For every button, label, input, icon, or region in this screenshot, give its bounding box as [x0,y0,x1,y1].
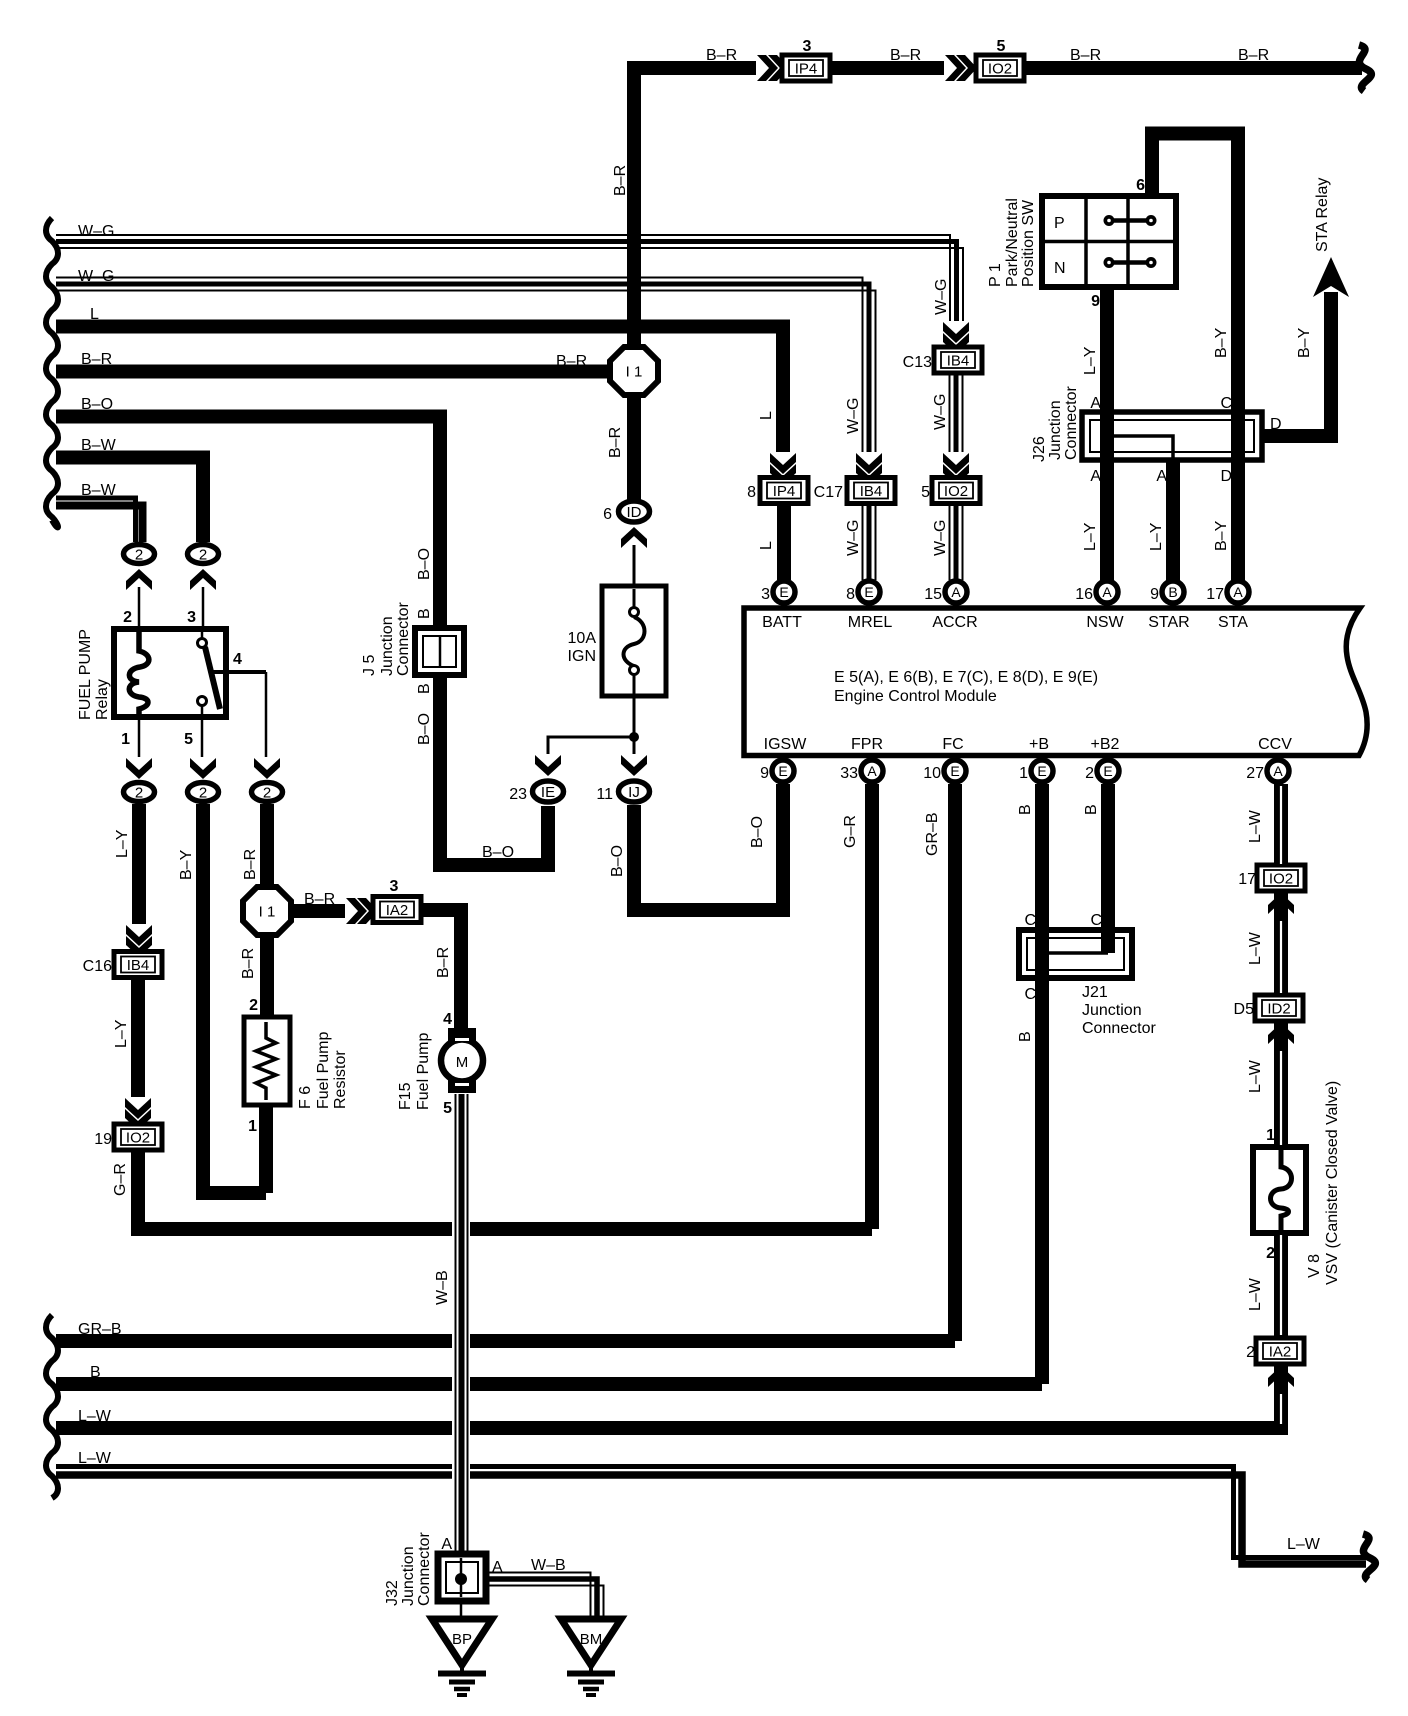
connector IB4 (C17) [814,478,895,504]
svg-text:C13: C13 [903,354,932,371]
arrow into IP4 (8) [770,452,797,485]
arrow into IB4 (C13) [943,321,970,354]
svg-text:B–R: B–R [1238,47,1269,64]
svg-text:F15: F15 [397,1082,414,1110]
svg-text:4: 4 [443,1011,452,1028]
svg-text:IA2: IA2 [1269,1344,1292,1361]
svg-text:N: N [1054,260,1066,277]
wire NSW through J26 [1082,414,1113,581]
svg-text:10: 10 [923,765,941,782]
torn edge left bottom buses [46,1315,58,1498]
connector IA2 (3) [373,878,421,923]
svg-text:B–R: B–R [706,47,737,64]
pin +B2 2 E [1085,736,1119,782]
svg-text:Park/Neutral: Park/Neutral [1004,198,1021,287]
svg-text:E: E [864,584,873,600]
svg-text:L–Y: L–Y [1082,522,1099,551]
svg-text:STA Relay: STA Relay [1314,178,1331,252]
svg-text:B: B [416,683,433,694]
arrow down into IE [535,754,562,776]
svg-text:J32: J32 [384,1580,401,1606]
svg-text:B: B [416,608,433,619]
svg-text:B–O: B–O [482,844,514,861]
svg-text:E: E [1037,763,1046,779]
svg-text:2: 2 [135,547,143,564]
wire branch to IE [548,737,634,757]
wire relay pin 4 drop [265,672,268,760]
arrow down into IJ [621,754,648,776]
svg-text:2: 2 [1085,765,1094,782]
svg-text:B–R: B–R [890,47,921,64]
svg-text:5: 5 [443,1100,452,1117]
svg-text:Junction: Junction [400,1546,417,1606]
arrow up into oval 2 pin2 [126,569,153,591]
svg-text:BM: BM [580,1631,603,1648]
svg-text:J21: J21 [1082,984,1108,1001]
svg-text:A: A [1273,763,1283,779]
relay pin 4 contact line [213,651,266,672]
svg-text:W–G: W–G [845,520,862,556]
svg-text:IO2: IO2 [126,1130,150,1147]
svg-text:5: 5 [997,38,1006,55]
fuel pump F15 motor [397,1028,483,1117]
arrow up into IA2-2 [1268,1366,1295,1388]
wire W-G IO2 to ACCR [932,503,963,580]
svg-text:L–W: L–W [1247,809,1264,843]
label B-R top rail left [706,47,737,64]
svg-text:IGSW: IGSW [764,736,808,753]
svg-text:GR–B: GR–B [78,1321,122,1338]
wire L-W CCV to IO2-17 [1247,784,1281,866]
svg-text:IO2: IO2 [944,483,968,500]
svg-text:I 1: I 1 [626,364,643,381]
pin FC 10 E [923,736,966,782]
wire B-W bus 2 [56,482,143,542]
svg-text:STA: STA [1218,614,1248,631]
junction I1 top [610,347,658,395]
svg-text:BATT: BATT [762,614,802,631]
junction connector J5 [361,602,464,694]
arrow up into ID [621,527,648,549]
wire GR-B FC to bus [924,784,955,1341]
svg-text:B–O: B–O [749,816,766,848]
label W-G above C13 [933,279,950,315]
label C top of J26 [1220,395,1232,412]
svg-text:3: 3 [390,878,399,895]
svg-text:W–G: W–G [932,520,949,556]
wire L-W bus 2 [56,1450,1366,1564]
svg-text:Connector: Connector [395,602,412,676]
svg-text:IO2: IO2 [1269,871,1293,888]
pin BATT 3 E [761,581,802,631]
svg-text:ACCR: ACCR [932,614,977,631]
relay FUEL PUMP box [77,629,226,720]
svg-text:M: M [456,1054,469,1071]
svg-text:B–O: B–O [416,548,433,580]
connector IO2 (17) [1238,865,1305,891]
svg-text:B–Y: B–Y [178,849,195,880]
svg-text:D: D [1270,416,1282,433]
svg-text:27: 27 [1246,765,1264,782]
svg-text:L: L [90,306,99,323]
torn edge left top buses [46,218,58,527]
svg-text:W–G: W–G [78,268,114,285]
svg-text:A: A [492,1559,503,1576]
svg-text:A: A [1156,468,1167,485]
svg-text:VSV (Canister Closed Valve): VSV (Canister Closed Valve) [1324,1081,1341,1285]
svg-text:A: A [951,584,961,600]
wire L-Y pin9 to J26 [1082,287,1107,414]
svg-text:V 8: V 8 [1306,1254,1323,1278]
svg-text:IJ: IJ [628,784,640,801]
junction connector J32 [384,1532,486,1606]
svg-text:5: 5 [184,731,193,748]
svg-text:3: 3 [761,586,770,603]
wire W-B J32 to BM [486,1557,604,1619]
svg-text:6: 6 [603,506,612,523]
arrow into IO2 (19) [125,1097,152,1130]
svg-text:BP: BP [452,1631,472,1648]
svg-text:Engine Control Module: Engine Control Module [834,688,997,705]
svg-text:W–B: W–B [531,1557,566,1574]
svg-text:2: 2 [263,785,271,802]
svg-text:Connector: Connector [1082,1020,1156,1037]
wire W-G bus 2 [56,268,876,453]
wire ID to fuse [633,545,636,586]
wire G-R FPR [842,784,872,1229]
svg-text:D: D [1220,468,1232,485]
svg-text:A: A [441,1536,452,1553]
svg-text:B: B [1017,1031,1034,1042]
connector IA2 (2) [1246,1338,1304,1364]
svg-text:B–R: B–R [242,849,259,880]
svg-text:2: 2 [1246,1344,1255,1361]
relay switch contact bottom [198,697,207,717]
wire break right end of B-R rail [1359,45,1371,91]
arrow into IO2 (5) accr [943,452,970,485]
svg-text:C16: C16 [83,958,112,975]
fuse 10A IGN [568,586,666,696]
svg-text:B–W: B–W [81,437,117,454]
svg-text:B: B [1083,804,1100,815]
wire L bus [56,306,783,453]
wire J32 to BP ground [460,1601,463,1622]
wire B-Y pin6 loop [1136,134,1238,415]
connector 2 (L-Y) [124,783,155,802]
connector 2 (B-R) [252,783,283,802]
svg-text:2: 2 [199,547,207,564]
junction connector J26 [1031,386,1262,462]
svg-text:E: E [1103,763,1112,779]
wire L-Y oval to C16 [114,804,139,925]
relay switch contact top [198,630,207,648]
wire B-O bus [56,396,548,865]
wire B-R I1 to resistor [240,933,267,1017]
pin CCV 27 A [1246,736,1292,782]
svg-text:11: 11 [596,786,613,803]
wire B-R bus [56,351,612,372]
wire B-W bus 1 [56,437,203,542]
svg-text:ID: ID [627,504,642,521]
svg-text:Resistor: Resistor [332,1050,349,1109]
svg-text:B–R: B–R [1070,47,1101,64]
svg-text:6: 6 [1136,177,1145,194]
svg-text:L–Y: L–Y [113,1019,130,1048]
wire L-W VSV to IA2 [1247,1233,1281,1337]
svg-text:IGN: IGN [568,648,596,665]
svg-text:W–G: W–G [933,279,950,315]
svg-text:L–W: L–W [1247,931,1264,965]
wire L IP4 to BATT [758,503,784,580]
svg-text:L–W: L–W [1247,1277,1264,1311]
svg-text:B–R: B–R [612,165,629,196]
wire W-G C17 to MREL [845,503,876,580]
svg-text:C: C [1024,986,1036,1003]
svg-text:W–B: W–B [434,1270,451,1305]
wire B-R I1 to ID [607,394,634,500]
svg-text:8: 8 [846,586,855,603]
wire to relay pin 2 [123,587,139,629]
wire B-R oval to I1 [242,804,267,889]
svg-text:L–W: L–W [78,1408,112,1425]
wire fuse to junction [633,693,636,737]
svg-text:17: 17 [1206,586,1224,603]
svg-text:FC: FC [942,736,963,753]
svg-text:L: L [758,541,775,550]
arrow into IA2 (3) [345,898,378,925]
svg-text:B–O: B–O [416,713,433,745]
switch P1 Park/Neutral Position SW [987,196,1176,287]
svg-text:FPR: FPR [851,736,883,753]
svg-text:P 1: P 1 [987,263,1004,287]
svg-text:B–Y: B–Y [1213,520,1230,551]
svg-text:C17: C17 [814,484,843,501]
J21 internal link [1037,947,1108,959]
svg-text:4: 4 [233,651,242,668]
svg-text:8: 8 [747,484,756,501]
wire B +B through J21 [1017,784,1042,1384]
white stripes of L-W wires [1280,786,1282,1424]
svg-text:MREL: MREL [848,614,893,631]
resistor F6 Fuel Pump Resistor [244,1017,349,1109]
arrow down into oval L-Y [126,757,153,779]
svg-text:23: 23 [509,786,527,803]
svg-text:3: 3 [803,38,812,55]
pin STA 17 A [1206,581,1249,631]
svg-text:IO2: IO2 [988,61,1012,78]
connector 2 (relay pin3 side) [188,545,219,564]
wire B-R I1 to IA2 [289,891,348,911]
svg-text:L–Y: L–Y [1082,346,1099,375]
crossover gaps for W-B wire [452,1222,470,1480]
pin MREL 8 E [846,581,892,631]
arrow into IB4 (C16) [126,924,153,957]
svg-text:1: 1 [121,731,130,748]
svg-text:B–Y: B–Y [1213,327,1230,358]
svg-text:B–R: B–R [556,353,587,370]
relay coil [129,630,149,716]
svg-text:IP4: IP4 [795,61,818,78]
svg-text:L–W: L–W [1287,1536,1321,1553]
svg-text:9: 9 [1091,293,1100,310]
svg-text:Junction: Junction [1047,400,1064,460]
svg-text:B: B [1017,804,1034,815]
pin NSW 16 A [1075,581,1124,631]
svg-text:2: 2 [123,609,132,626]
svg-text:J26: J26 [1031,436,1048,462]
connector IB4 (C13) [903,347,982,373]
svg-text:Relay: Relay [94,679,111,720]
svg-text:IB4: IB4 [860,483,883,500]
wire B-R top rail [627,61,1362,75]
pin ACCR 15 A [924,581,977,631]
pin STAR 9 B [1148,581,1189,631]
wire B-Y relay to resistor [178,804,266,1193]
connector IP4 (3) [782,38,830,81]
IC ECM Engine Control Module [744,608,1367,756]
svg-text:Junction: Junction [1082,1002,1142,1019]
svg-text:GR–B: GR–B [924,812,941,856]
svg-text:IA2: IA2 [386,902,409,919]
wire L-W IA2 to bus [1274,1364,1288,1428]
svg-text:2: 2 [135,785,143,802]
svg-text:A: A [867,763,877,779]
wire L-Y C16 to IO2 [113,978,138,1098]
connector IJ (11) [596,781,649,803]
svg-text:CCV: CCV [1258,736,1292,753]
label W-G above C17 [845,398,862,434]
svg-text:B–R: B–R [304,891,335,908]
connector IE (23) [509,781,563,803]
svg-text:Connector: Connector [416,1532,433,1606]
label B-R top rail mid [890,47,921,64]
wire W-B fuel pump to J32 [434,1094,468,1553]
wire to relay pin 3 [187,587,203,629]
svg-text:9: 9 [1150,586,1159,603]
junction I1 lower [243,887,291,935]
wire B-R top rail riser [612,68,634,346]
svg-text:B: B [1168,584,1177,600]
wire B +B2 to J21 [1083,784,1108,953]
svg-text:Fuel Pump: Fuel Pump [315,1032,332,1109]
svg-text:B–R: B–R [435,947,452,978]
svg-text:A: A [1233,584,1243,600]
svg-text:5: 5 [921,484,930,501]
arrow into IP4 (3) [756,55,789,82]
svg-text:I 1: I 1 [259,904,276,921]
connector 2 (relay pin2 side) [124,545,155,564]
arrow into IO2 (5) [944,55,977,82]
svg-text:Position SW: Position SW [1020,199,1037,287]
svg-text:W–G: W–G [78,223,114,240]
svg-text:FUEL PUMP: FUEL PUMP [77,629,94,720]
wire B bus [56,1364,1042,1384]
wire B-R IA2 to pump [421,910,461,1028]
wire branch to IJ [633,737,636,757]
connector 2 (B-Y) [188,783,219,802]
wire B-Y J26 to STA [1213,414,1244,581]
svg-text:+B2: +B2 [1091,736,1120,753]
svg-text:STAR: STAR [1148,614,1189,631]
svg-text:B–W: B–W [81,482,117,499]
svg-text:B–R: B–R [607,427,624,458]
svg-text:B–R: B–R [81,351,112,368]
wire L-W bus 1 [56,1408,1288,1428]
wire relay pin 1 [121,717,139,760]
svg-text:ID2: ID2 [1267,1001,1290,1018]
wire G-R long run [112,1150,872,1229]
ground BP [432,1619,492,1695]
svg-text:2: 2 [199,785,207,802]
svg-text:C: C [1090,912,1102,929]
wire L-Y J26 to STAR [1148,458,1173,581]
svg-text:3: 3 [187,609,196,626]
svg-text:Junction: Junction [379,616,396,676]
connector IO2 (5) accr [921,478,980,504]
svg-text:1: 1 [248,1118,257,1135]
arrow down into oval B-R [254,757,281,779]
svg-text:2: 2 [1266,1245,1275,1262]
pin FPR 33 A [840,736,883,782]
svg-text:33: 33 [840,765,858,782]
connector IP4 (8) [747,478,808,504]
arrow down into oval B-Y [190,757,217,779]
arrow up into IO2-17 [1268,893,1295,915]
svg-text:1: 1 [1266,1127,1275,1144]
label B-R far right [1238,47,1269,64]
svg-text:A: A [1090,468,1101,485]
wire W-G bus 1 [56,223,963,322]
junction dot below fuse [629,732,639,742]
svg-text:10A: 10A [568,630,597,647]
wire L-W IO2-17 to ID2 [1247,891,1281,995]
svg-text:A: A [1102,584,1112,600]
svg-text:E: E [950,763,959,779]
svg-text:B: B [90,1364,101,1381]
wire B-O IJ to IGSW [609,784,783,910]
svg-text:9: 9 [760,765,769,782]
wire break right end of L-W [1363,1534,1375,1580]
svg-text:IE: IE [541,784,555,801]
svg-text:IB4: IB4 [947,353,970,370]
svg-text:2: 2 [249,997,258,1014]
label B-R top rail right [1070,47,1101,64]
svg-text:W–G: W–G [932,394,949,430]
wire B-Y J26 to STA relay [1262,292,1331,436]
ground BM [561,1619,621,1695]
pin IGSW 9 E [760,736,807,782]
wire resistor pin1 down [248,1105,266,1193]
svg-text:D5: D5 [1234,1001,1255,1018]
VSV V8 Canister Closed Valve [1253,1081,1341,1285]
connector ID (6) [603,501,649,523]
svg-text:L–Y: L–Y [114,829,131,858]
arrow up into oval 2 pin3 [190,569,217,591]
connector IO2 (19) [94,1124,162,1150]
svg-text:+B: +B [1029,736,1049,753]
svg-text:B–O: B–O [81,396,113,413]
svg-text:C: C [1024,912,1036,929]
svg-text:L–Y: L–Y [1148,522,1165,551]
svg-text:15: 15 [924,586,942,603]
svg-text:B–R: B–R [240,948,257,979]
svg-text:Connector: Connector [1063,386,1080,460]
wire J26 internal to STAR [1107,436,1173,458]
arrow into IB4 (C17) [856,452,883,485]
svg-text:F 6: F 6 [297,1086,314,1109]
wire L-W ID2 to VSV [1247,1021,1281,1147]
svg-text:E 5(A), E 6(B), E 7(C), E 8(D): E 5(A), E 6(B), E 7(C), E 8(D), E 9(E) [834,669,1098,686]
